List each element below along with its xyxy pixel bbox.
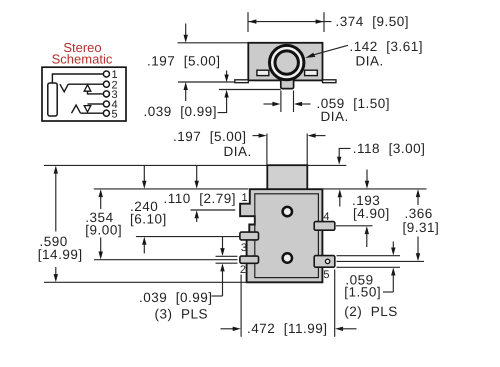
front body [240,189,322,282]
dim .374 [9.50] line [248,21,332,23]
dim .039 arrow up (top view) [224,90,228,103]
dim .197 lower arrow left-pointing [308,133,326,137]
wire pin3 [88,91,104,94]
switch triangle up [84,85,91,92]
svg-text:[9.00]: [9.00] [85,222,122,237]
switch triangle down [84,106,91,112]
dim .110 lower arrow [195,210,199,222]
svg-text:.374 [9.50]: .374 [9.50] [336,14,410,29]
svg-text:.197 [5.00]: .197 [5.00] [173,129,247,144]
pin 5 hole [325,259,329,263]
svg-text:.039 [0.99]: .039 [0.99] [144,104,218,119]
dim .059 right leader hook [383,291,393,293]
top view center tab [281,79,294,88]
svg-text:Schematic: Schematic [52,51,113,66]
schematic box [42,67,126,121]
dim .059 right arrow up [391,268,395,293]
svg-text:.110 [2.79]: .110 [2.79] [164,191,237,206]
front bushing [267,165,307,190]
top view left slot [257,70,269,75]
ext bushing top [44,164,267,166]
wire pin2 [68,83,103,85]
dim .142 leader [310,45,348,56]
ext .472 right [334,270,336,337]
svg-text:.197 [5.00]: .197 [5.00] [147,54,221,69]
tab bottom ref line [219,89,281,91]
dim .374 arrow right [316,19,324,23]
ext pin1 center [191,209,236,211]
wire pin1 [52,74,103,83]
svg-text:.142 [3.61]: .142 [3.61] [350,39,424,54]
dim .142 leader arrowhead [305,53,315,58]
svg-text:5: 5 [112,108,118,120]
ext pin5 bottom [337,266,401,268]
dim .059 arrow left-pointing [294,102,311,106]
dim .197 lower arrow right-pointing [253,133,267,137]
dim .472 right arrow [335,327,356,331]
hole lower [283,253,292,262]
ext .472 left [240,275,242,337]
dim .197 arrow up [184,82,188,101]
svg-text:1: 1 [242,192,248,204]
ring contact [72,105,81,113]
dim .059 ext right (top view) [293,91,295,113]
svg-text:(3) PLS: (3) PLS [155,306,209,321]
top view jack ring outer [270,45,304,79]
svg-text:.366: .366 [405,206,433,221]
ext body top left [94,188,249,190]
tip contact V [60,84,68,92]
top view right flange [323,80,337,83]
dim .039 arrow down (top view) [224,71,228,83]
dim .374 [9.50] ext right [323,12,325,32]
dim .472 left arrow [221,327,241,331]
dim .240 upper arrow [142,166,146,189]
ext pin2 bottom [216,262,238,264]
ext pin5 top [337,255,401,257]
dim .059 right arrow down [391,242,395,256]
ext body bottom [44,281,248,283]
svg-text:(2) PLS: (2) PLS [344,304,398,319]
dim .110 upper arrow [195,166,199,189]
pin 3 [240,232,259,240]
dim .197 bottom ref line [178,81,235,83]
sleeve bar [48,83,57,116]
dim .059 ext left (top view) [280,91,282,113]
pin5 circle [103,110,109,116]
dim .590 lower arrow [54,267,58,282]
dim .366 upper arrow [416,189,420,205]
wire pin5 [81,112,104,114]
dim .193 upper arrow (up at body top) [338,189,342,206]
svg-text:DIA.: DIA. [321,109,349,124]
hole upper [283,207,292,216]
dim .197 lower ext right [306,134,308,165]
svg-text:[14.99]: [14.99] [38,247,83,262]
top view body [248,43,322,81]
dim .193 lower arrow [365,226,369,247]
ext pin4 center [336,225,373,227]
svg-text:5: 5 [323,269,329,281]
dim .366 lower arrow [416,237,420,262]
front body inner line [255,194,319,278]
svg-text:4: 4 [323,211,329,223]
dim .197 arrow down [184,24,188,43]
svg-text:[4.90]: [4.90] [353,206,390,221]
dim .197 lower ext left [266,134,268,165]
ext body top right [322,188,426,190]
dim .197 top ref line [178,42,249,44]
dim .590 upper arrow [54,166,58,232]
dim .354 lower arrow [99,238,103,260]
dim .039 lower arrow up [220,263,224,296]
pin4 circle [103,101,109,107]
svg-text:.118 [3.00]: .118 [3.00] [353,141,426,156]
svg-text:DIA.: DIA. [356,54,384,69]
dim .118 leader arrowhead [337,157,341,165]
wire pin4 [88,103,104,105]
dim .039 leader hook (top view) [218,103,227,113]
svg-text:.472 [11.99]: .472 [11.99] [247,321,328,336]
pin 5 [314,256,335,268]
dim .059 arrow right-pointing [264,102,281,106]
pin2 circle [103,81,109,87]
svg-text:.039 [0.99]: .039 [0.99] [139,290,213,305]
dim .374 arrow left [248,19,256,23]
ext pin5 center [337,260,425,262]
ext pin2 top [216,255,238,257]
svg-text:[1.50]: [1.50] [344,285,381,300]
dim .039 leader hook [212,295,223,297]
pin 2 [240,256,259,263]
dim .240 lower arrow [142,237,146,254]
dim .039 lower arrow down [220,237,224,257]
svg-text:DIA.: DIA. [224,144,252,159]
pin1 circle [103,71,109,77]
dim .354 upper arrow [99,189,103,209]
svg-text:[9.31]: [9.31] [403,220,440,235]
dim .374 [9.50] ext left [247,12,249,32]
svg-text:[6.10]: [6.10] [130,211,167,226]
top view right slot [305,70,318,75]
ext pin3 center [136,236,240,238]
svg-text:3: 3 [241,242,247,254]
ext pin2 center [94,259,238,261]
svg-text:2: 2 [240,264,246,276]
pin 4 [314,222,335,231]
dim .118 leader [339,148,350,158]
pin3 circle [103,91,109,97]
top view left flange [235,80,249,83]
top view jack ring inner [275,51,298,74]
dim .118 second arrow (down at body top) [365,170,369,189]
